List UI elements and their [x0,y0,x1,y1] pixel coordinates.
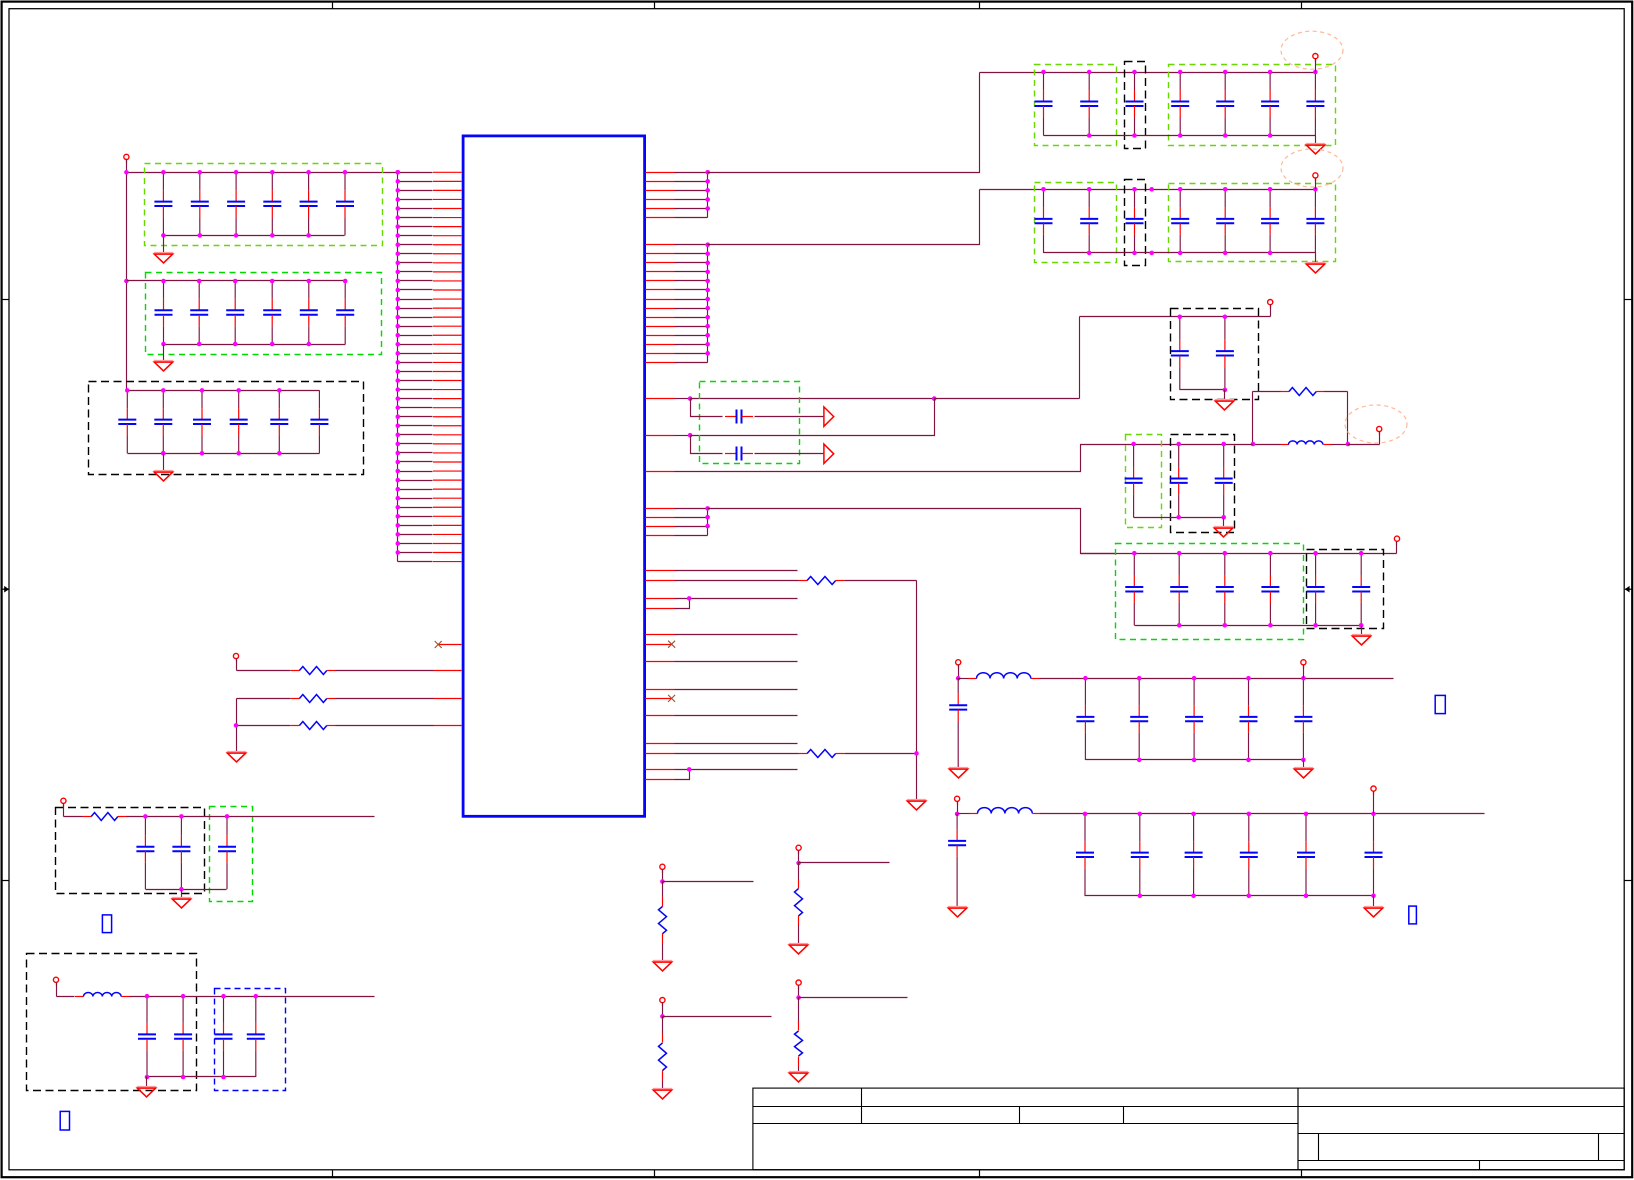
wire P13 down [798,863,800,880]
junction [277,451,282,456]
node junction bus L38 [396,505,401,510]
port P11 [1371,786,1376,795]
junction [236,451,241,456]
node junction bus L24 [396,378,401,383]
junction [1087,187,1092,192]
junction [705,197,710,202]
capacitor C11 [154,172,172,235]
pin R4 [646,199,675,201]
pin L37 [433,497,462,499]
junction [1176,442,1181,447]
pin R41s [646,779,675,781]
port P15 [796,980,801,989]
wire row2 filter bottom rail [1085,895,1374,897]
node junction bus L17 [396,315,401,320]
junction [1268,623,1273,628]
pin L23 [433,370,462,372]
junction [198,233,203,238]
resistor R15 [795,1031,803,1056]
junction [1268,551,1273,556]
wire green bank rail [1081,553,1397,555]
wire port P1 stem [126,160,128,173]
pin L42 [433,542,462,544]
pin L16 [433,307,462,309]
wire R3 left segment [237,725,291,727]
capacitor C91 [1125,553,1143,625]
capacitor C25 [300,281,318,344]
pin L34 [433,470,462,472]
wire R32s stub [675,634,798,636]
capacitor C123 [218,816,236,889]
ground 12 [653,961,672,971]
wire bus to pin L44 [398,561,433,563]
junction [705,506,710,511]
pin L1 [433,171,462,173]
node junction bus L34 [396,469,401,474]
wire row2 filter rail [1041,813,1485,815]
node junction bus L18 [396,324,401,329]
node junction port bus / bank1 rail [124,170,129,175]
cap group box mid-right [1171,435,1235,533]
border zone tick top [979,2,981,9]
wire blackbox ground stem [1224,390,1226,400]
wire port P8 stem [958,665,960,679]
wire bus to pin L6 [398,217,433,219]
border zone tick top [654,2,656,9]
wire pin pair bus 2 [675,770,690,780]
junction [197,279,202,284]
capacitor C92 [1170,553,1188,625]
junction [236,388,241,393]
junction [1268,251,1273,256]
border zone tick left [2,299,9,301]
wire L4 to caps rail [130,996,375,998]
wire left resistor ground bus [236,699,238,752]
port P9 [1301,660,1306,669]
ground row1 filter [1294,768,1313,778]
junction [1301,676,1306,681]
node junction bus L20 [396,342,401,347]
junction [1177,551,1182,556]
pin R34s [646,661,675,663]
junction [705,351,710,356]
pin R35s [646,689,675,691]
wire mid bank bottom rail [1134,517,1224,519]
junction [181,1075,186,1080]
pin L38 [433,506,462,508]
node junction pin pair 2 [687,767,692,772]
wire P13 horizontal [799,862,890,864]
wire green bank bottom rail [1135,625,1362,627]
node junction bus L4 [396,197,401,202]
pin L20 [433,343,462,345]
junction [705,333,710,338]
capacitor C102 [1130,678,1148,760]
capacitor C101 [1076,678,1094,760]
ground left-mid [172,898,191,908]
port P12 [660,864,665,873]
pin L36 [433,488,462,490]
wire P15 down [798,998,800,1022]
wire bus to pin L42 [398,543,433,545]
wire bottom-left ground stem [146,1077,148,1087]
no-connect X right pin 2 [668,695,675,702]
junction [161,388,166,393]
junction [145,994,150,999]
node junction bus L29 [396,423,401,428]
wire node B riser [1347,392,1349,445]
pin R16 [646,326,675,328]
node junction bus L9 [396,242,401,247]
wire blackbox bank bottom rail [1180,389,1225,391]
wire R4 to node B [1325,391,1348,393]
wire bus to pin L32 [398,452,433,454]
node junction row2 rail [1149,187,1154,192]
wire pin R10 to bus B [675,271,708,273]
capacitor C81 [1125,444,1143,517]
wire row1 bottom rail [1044,135,1316,137]
node junction series cap 1 tap [688,396,693,401]
junction [221,994,226,999]
port P4 [1313,173,1318,182]
wire series cap 2 branch [691,436,723,454]
pin L29 [433,425,462,427]
ground row2 [1306,263,1325,273]
cap group box green bank [1116,544,1304,640]
wire bus to pin L27 [398,407,433,409]
wire pin R1 to bus A [675,172,708,174]
wire pin R8 to bus B [675,253,708,255]
node junction bus L37 [396,496,401,501]
wire bank3 ground stem [163,454,165,471]
junction [143,814,148,819]
capacitor C41 [1035,72,1053,136]
wire P17 to L4 [57,996,75,998]
junction [1223,70,1228,75]
wire R2 left segment [237,698,291,700]
pin R9 [646,262,675,264]
wire pin R17 to bus B [675,335,708,337]
pin L39 [433,515,462,517]
wire port P10 stem [957,802,959,814]
node junction R2/R3 ground bus [234,723,239,728]
wire bus to pin L24 [398,380,433,382]
resistor R7 [83,813,127,821]
capacitor C96 [1352,553,1370,625]
node junction bus L30 [396,433,401,438]
wire bus to pin L28 [398,416,433,418]
title block column line [1479,1161,1481,1170]
junction [1132,70,1137,75]
node junction bus L10 [396,251,401,256]
junction [161,170,166,175]
wire P14 down [662,1017,664,1034]
wire row1 top rail [980,72,1316,74]
junction [270,279,275,284]
filter block green box left-mid [210,807,253,902]
pin R2 [646,181,675,183]
node junction bus L33 [396,460,401,465]
node junction bus L36 [396,487,401,492]
node junction bus L5 [396,206,401,211]
wire pin pair to stub 2 [675,769,798,771]
capacitor C45 [1216,72,1234,136]
pin L40 [433,524,462,526]
wire bus to pin L3 [398,190,433,192]
wire R3 to pin [336,725,434,727]
wire bus to pin L21 [398,353,433,355]
node junction bus L3 [396,188,401,193]
junction [1223,623,1228,628]
pin L35 [433,479,462,481]
capacitor C44 [1171,72,1189,136]
junction [705,297,710,302]
wire node A riser [1252,392,1254,445]
port P3 [1313,54,1318,63]
pin L43 [433,552,462,554]
pin L7 [433,226,462,228]
title block column line [1598,1134,1600,1161]
node junction bus L16 [396,306,401,311]
wire bus to pin L15 [398,299,433,301]
junction [705,515,710,520]
junction [705,179,710,184]
junction [1301,758,1306,763]
junction [1083,676,1088,681]
wire bus to pin L37 [398,498,433,500]
capacitor C121 [136,816,154,889]
pin R31s [646,608,675,610]
junction [1223,133,1228,138]
wire port P15 stem [798,986,800,998]
capacitor C56 [1261,189,1279,253]
ground P8 cap [949,768,968,778]
pin R20 [646,362,675,364]
capacitor C36 [310,390,328,453]
junction [1304,812,1309,817]
junction [234,170,239,175]
pin R24s [646,508,675,510]
pin R17 [646,335,675,337]
pin L27 [433,407,462,409]
capacitor C100 [949,678,967,768]
junction [234,233,239,238]
node junction P12 [660,879,665,884]
cap group box row1 right [1169,65,1336,146]
wire pin R3 to bus A [675,190,708,192]
wire pin to bus C [675,517,708,519]
port P6 [1377,426,1382,435]
junction [270,170,275,175]
ground bank3 [154,471,173,481]
wire bus to pin L19 [398,335,433,337]
capacitor C51 [1035,189,1053,253]
wire P8 node to L2 [959,678,969,680]
port P2 [233,653,238,662]
wire R37s stub [675,715,798,717]
node junction bus L14 [396,288,401,293]
capacitor C72 [1216,317,1234,390]
wire bus to pin L7 [398,226,433,228]
wire bus A to row1 rail [708,73,980,173]
filter block box left-mid [56,808,205,894]
wire pin to series-cap node [675,398,691,400]
wire port P2 stem [236,659,238,671]
left pin bus vertical wire [397,173,399,562]
node junction bus L22 [396,360,401,365]
pin R33s no-connect [646,644,672,646]
capacitor C93 [1216,553,1234,625]
capacitor C112 [1131,814,1149,896]
junction [1223,251,1228,256]
wire left power bus vertical [126,173,128,391]
label glyph box row2 [1409,906,1417,924]
capacitor C132 [174,996,192,1077]
wire pin to bus C [675,508,708,510]
ground bank2 [154,361,173,371]
wire pin to R5 [675,580,799,582]
pin L6 [433,217,462,219]
pin L11 [433,262,462,264]
wire P12 down [662,882,664,897]
wire bus to pin L20 [398,344,433,346]
wire bank2 ground stem [163,345,165,361]
wire rail to L1 [1253,444,1281,446]
port P10 [955,796,960,805]
wire row2 top rail [980,189,1316,191]
junction [705,188,710,193]
wire pin to R6 [675,753,799,755]
wire bus C to green bank [708,509,1115,554]
cap group box row2 mid [1125,180,1146,266]
node junction series cap 2 tap [688,433,693,438]
wire bus to pin L22 [398,362,433,364]
wire pin R11 to bus B [675,280,708,282]
junction [1087,70,1092,75]
node junction bank1 rail / pin bus [396,170,401,175]
wire bus to pin L31 [398,443,433,445]
pin L22 [433,361,462,363]
pin L13 [433,280,462,282]
junction [221,1075,226,1080]
wire left-mid ground stem [181,890,183,898]
capacitor C26 [336,281,354,344]
wire pin R5 to bus A [675,208,708,210]
wire series cap 1 branch [691,399,723,417]
node junction bus L27 [396,405,401,410]
pin L14 [433,289,462,291]
junction [1191,812,1196,817]
pin R3 [646,190,675,192]
pin L31 [433,443,462,445]
capacitor C103 [1185,678,1203,760]
node junction bus L32 [396,451,401,456]
wire P10 node to L3 [958,813,970,815]
node junction bus L8 [396,233,401,238]
cap group box mid-left [1126,435,1162,528]
capacitor C24 [263,281,281,344]
pin L10 [433,253,462,255]
junction [307,279,312,284]
wire P16 to R7 [64,816,83,818]
pin L12 [433,271,462,273]
junction [1247,894,1252,899]
border zone tick top [1301,2,1303,9]
wire pin to series-cap node 2 [675,435,691,437]
pin R38s [646,743,675,745]
wire bus to pin L34 [398,471,433,473]
wire series cap 1 to arrow [755,416,824,418]
capacitor C14 [263,172,281,235]
wire port P4 stem [1315,179,1317,190]
right bus A vertical wire [707,173,709,218]
title block row line [1299,1160,1625,1162]
capacitor C94 [1261,553,1279,625]
pin R26s [646,526,675,528]
title block column line [861,1089,863,1124]
right bus C vertical wire [707,509,709,536]
capacitor C34 [230,390,248,453]
pin R21s [646,398,675,400]
resistor R2 [291,695,336,703]
capacitor C13 [227,172,245,235]
junction [1313,70,1318,75]
wire bus to pin L26 [398,398,433,400]
junction [233,342,238,347]
pin L19 [433,334,462,336]
capacitor C23 [226,281,244,344]
capacitor C46 [1261,72,1279,136]
node junction P13 [796,861,801,866]
node junction bus L7 [396,224,401,229]
node junction node A [1251,442,1256,447]
pin R22s [646,435,675,437]
wire riser to black-box bank [1079,317,1081,399]
junction [1371,894,1376,899]
junction [1178,133,1183,138]
right bus B vertical wire [707,245,709,363]
wire port P3 stem [1315,59,1317,73]
junction [1178,315,1183,320]
junction [125,388,130,393]
junction [343,279,348,284]
wire bus to pin L8 [398,235,433,237]
wire node A to R4 [1253,391,1281,393]
junction [1083,812,1088,817]
wire R7 to caps rail [127,816,375,818]
junction [343,170,348,175]
junction [705,524,710,529]
wire bus to pin L40 [398,525,433,527]
node junction bus L21 [396,351,401,356]
junction [306,170,311,175]
pin R11 [646,280,675,282]
resistor R4 [1280,388,1325,396]
wire green bank ground stem [1361,626,1363,635]
decoupling group box (bank3) [89,382,364,475]
cap group box row1 left [1035,65,1117,146]
junction [1192,758,1197,763]
capacitor C47 [1306,72,1324,136]
filter block box bottom-left [27,954,197,1091]
wire bus to pin L16 [398,308,433,310]
wire row1 ground stem [1315,136,1317,144]
resistor R12 [659,906,667,933]
pin R6 [646,217,675,219]
junction [1087,251,1092,256]
border zone tick bottom [654,1170,656,1178]
no-connect X right pin 1 [668,641,675,648]
